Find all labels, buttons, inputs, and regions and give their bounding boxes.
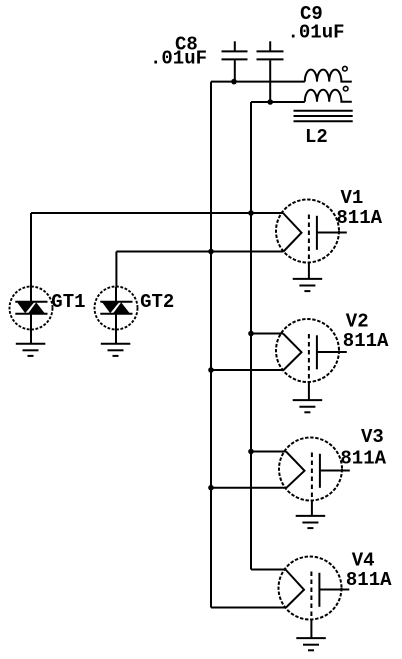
wire V2 bottom filament <box>211 369 284 371</box>
svg-text:.01uF: .01uF <box>288 22 345 44</box>
wire GT1 drop <box>30 213 32 287</box>
node bus2 to V1 top <box>248 210 254 216</box>
ground V3 <box>296 516 326 528</box>
triode V1 <box>276 187 383 279</box>
L2 core <box>294 111 353 148</box>
ground V2 <box>293 400 323 412</box>
node junction C9 <box>267 99 273 105</box>
wire GT2 drop <box>115 252 117 288</box>
node bus1 to V1 bottom <box>208 249 214 255</box>
wire bus2 vertical <box>250 102 252 570</box>
svg-text:GT1: GT1 <box>51 291 85 313</box>
capacitor C9 <box>257 3 345 102</box>
node bus1 to V2 bottom <box>208 367 214 373</box>
wire V4 top filament <box>251 569 286 571</box>
wire V1 top filament <box>31 212 283 214</box>
svg-text:GT2: GT2 <box>140 291 174 313</box>
ground V1 <box>293 279 323 291</box>
node bus2 to V2 top <box>248 331 254 337</box>
wire C8 junction to transformer, upper <box>211 81 305 83</box>
wire V4 bottom filament <box>211 607 286 609</box>
wire V2 top filament <box>251 333 283 335</box>
svg-text:811A: 811A <box>346 569 392 591</box>
triode V2 <box>276 311 389 401</box>
ground GT2 <box>101 344 131 356</box>
node junction C8 <box>231 79 237 85</box>
svg-text:811A: 811A <box>343 330 389 352</box>
capacitor C8 <box>150 34 248 82</box>
wire bus1 vertical <box>210 82 212 608</box>
node bus2 to V3 top <box>248 449 254 455</box>
ground V4 <box>296 638 326 650</box>
node bus1 to V3 bottom <box>208 485 214 491</box>
svg-text:V3: V3 <box>361 426 384 448</box>
svg-text:L2: L2 <box>305 126 328 148</box>
wire V3 bottom filament <box>211 487 287 489</box>
ground GT1 <box>16 344 46 356</box>
gas tube GT2 <box>95 287 175 344</box>
svg-text:811A: 811A <box>336 207 382 229</box>
wire V3 top filament <box>251 451 286 453</box>
inductor L2 lower winding <box>305 86 352 101</box>
triode V3 <box>279 426 387 516</box>
triode V4 <box>279 550 393 639</box>
svg-text:811A: 811A <box>340 448 386 470</box>
inductor L2 upper winding <box>305 66 352 81</box>
svg-text:V1: V1 <box>341 187 364 209</box>
wire V1 bottom filament <box>116 251 283 253</box>
wire C9 junction to transformer, lower <box>251 101 305 103</box>
gas tube GT1 <box>10 287 86 344</box>
svg-text:.01uF: .01uF <box>150 48 207 70</box>
